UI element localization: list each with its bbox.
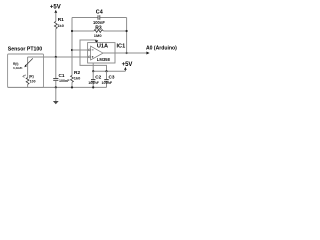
wire R1 bottom to node: [55, 29, 57, 57]
minus sign: [92, 49, 94, 51]
sensor box: [8, 54, 44, 87]
node junction R3 left: [71, 30, 73, 32]
svg-text:100nF: 100nF: [102, 81, 113, 85]
node junction sensor/R1/C1: [55, 56, 57, 58]
svg-text:C1: C1: [59, 73, 65, 78]
thermal arrow: [26, 58, 33, 65]
wire V+ feed (rail to top arrow): [80, 40, 107, 71]
svg-text:A0 (Arduino): A0 (Arduino): [146, 46, 177, 52]
capacitor C2: [88, 71, 101, 87]
svg-text:100: 100: [30, 79, 36, 83]
node junction output: [126, 52, 128, 54]
sensor wire to non-inverting input: [28, 56, 89, 58]
op-amp output wire: [103, 52, 146, 54]
node junction R2 bottom: [71, 86, 73, 88]
svg-text:C3: C3: [109, 74, 115, 79]
plus sign: [92, 56, 94, 58]
svg-text:0,4Ω/K: 0,4Ω/K: [13, 66, 23, 70]
pin circle inverting: [88, 49, 90, 51]
svg-text:LM358: LM358: [97, 57, 111, 62]
svg-text:IC1: IC1: [117, 44, 126, 50]
svg-text:1k0: 1k0: [74, 75, 81, 80]
capacitor C3: [102, 71, 115, 87]
op-amp triangle: [91, 46, 103, 60]
node junction inverting input: [71, 49, 73, 51]
op-amp U1A box: [88, 43, 115, 63]
svg-text:1M0: 1M0: [94, 33, 103, 38]
wire inverting input: [72, 49, 89, 51]
resistor R2: [71, 70, 81, 87]
wire feedback-node vertical (C4/R3 left ends down to R2): [71, 18, 73, 76]
svg-text:R1: R1: [58, 17, 64, 23]
capacitor C1: [53, 57, 70, 87]
svg-text:C2: C2: [95, 74, 101, 79]
svg-text:PT100: PT100: [27, 46, 42, 52]
capacitor C4: [72, 10, 127, 25]
svg-text:U1A: U1A: [97, 44, 108, 50]
node junction R3 right: [126, 30, 128, 32]
sensor info text: [13, 62, 23, 70]
pin circle non-inverting: [88, 56, 90, 58]
node junction C2 bottom: [92, 86, 94, 88]
power +5V right: [122, 62, 133, 71]
svg-text:-t°: -t°: [22, 75, 26, 79]
power +5V top-left: [50, 5, 61, 13]
wire R1 column: [55, 13, 57, 22]
svg-text:Sensor: Sensor: [8, 46, 26, 52]
svg-text:+5V: +5V: [50, 5, 61, 11]
sensor PT100 resistor: [22, 57, 35, 87]
arrow to A0: [146, 52, 149, 55]
ground: [53, 87, 59, 104]
svg-text:1k0: 1k0: [57, 23, 64, 28]
svg-text:100nF: 100nF: [93, 20, 105, 25]
resistor R3: [72, 25, 127, 38]
resistor R1: [54, 17, 64, 29]
svg-text:+5V: +5V: [122, 62, 133, 68]
svg-text:100nF: 100nF: [59, 79, 70, 83]
svg-text:C4: C4: [96, 10, 103, 16]
node junction C1 bottom: [55, 86, 57, 88]
ground rail: [8, 86, 107, 88]
node junction C2 top: [92, 70, 94, 72]
op-amp V+ pin stub: [92, 63, 94, 71]
wire feedback right vertical: [126, 18, 128, 54]
svg-text:(R): (R): [29, 75, 34, 79]
+5V rail: [93, 70, 125, 72]
svg-text:100nF: 100nF: [88, 81, 99, 85]
node junction C3 top: [105, 70, 107, 72]
